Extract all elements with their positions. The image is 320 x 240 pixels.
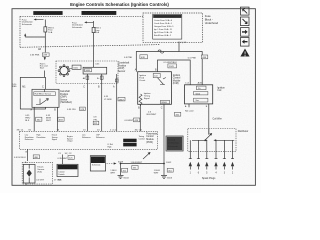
svg-text:Engine Controls Schematics (Ig: Engine Controls Schematics (Ignition Con… (70, 2, 169, 7)
